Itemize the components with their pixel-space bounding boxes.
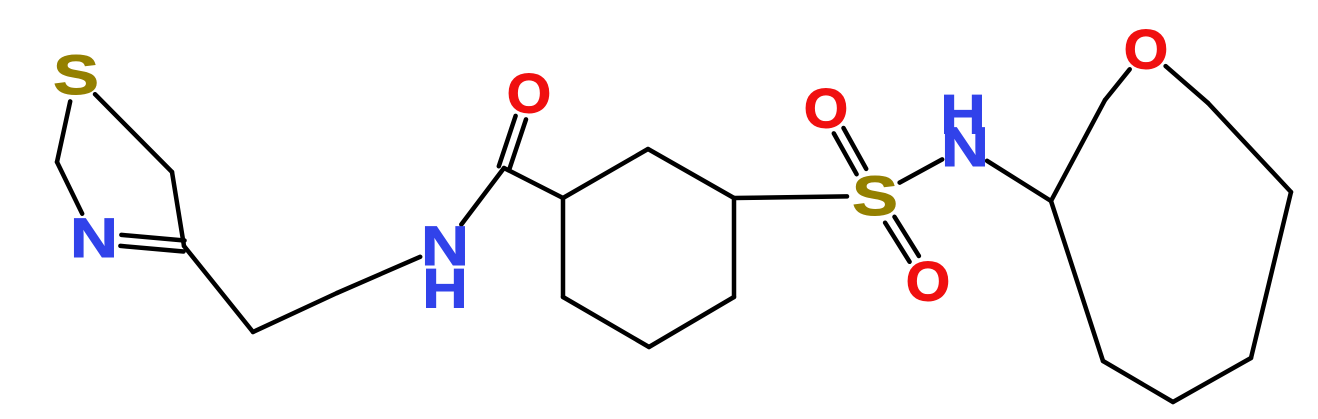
double bond N3=C4 <box>120 246 183 252</box>
svg-text:H: H <box>422 256 467 319</box>
bond C-D <box>1173 358 1251 402</box>
svg-text:O: O <box>906 250 950 312</box>
double bond S=O lower <box>885 223 910 262</box>
bond E-Cr <box>1208 103 1291 192</box>
ring bond V1-V2 <box>563 149 648 198</box>
bond CH2-N amide <box>337 257 420 293</box>
bond C-A <box>1051 100 1105 201</box>
bond C4-C5 <box>172 172 184 246</box>
double bond S=O upper <box>844 128 867 169</box>
bond C-O ether right <box>1166 66 1208 103</box>
bond CH2-CH2 <box>253 293 337 332</box>
bond S-N sulfonamide <box>900 159 943 182</box>
bond C2-N3 <box>57 162 82 214</box>
ring bond V6-V1 <box>561 198 566 297</box>
svg-text:O: O <box>1124 18 1168 80</box>
bond C4-CH2 <box>184 246 253 332</box>
bond N-CH <box>987 161 1051 201</box>
bond S1-C2 (thiazine S to C2) <box>57 101 70 162</box>
bond C5-S1 <box>95 94 172 172</box>
double bond C=O <box>509 119 526 169</box>
ring bond V4-V5 <box>649 297 734 347</box>
bond C(=O)-ring <box>504 168 563 198</box>
bond B-C <box>1103 361 1173 402</box>
bond O-C ether left <box>1105 69 1130 100</box>
ring bond V5-V6 <box>563 297 649 347</box>
bond N-C carbonyl <box>461 168 504 225</box>
svg-text:S: S <box>852 165 898 228</box>
svg-text:O: O <box>804 77 848 139</box>
svg-text:N: N <box>70 207 118 269</box>
svg-text:S: S <box>53 44 99 107</box>
bond A-B <box>1051 201 1103 361</box>
ring bond V2-V3 <box>648 149 734 198</box>
bond ring-S sulfonyl <box>734 196 847 198</box>
svg-text:O: O <box>507 62 551 124</box>
ring bond V3-V4 <box>732 198 737 297</box>
bond D-E <box>1251 192 1291 358</box>
svg-text:N: N <box>941 116 989 178</box>
